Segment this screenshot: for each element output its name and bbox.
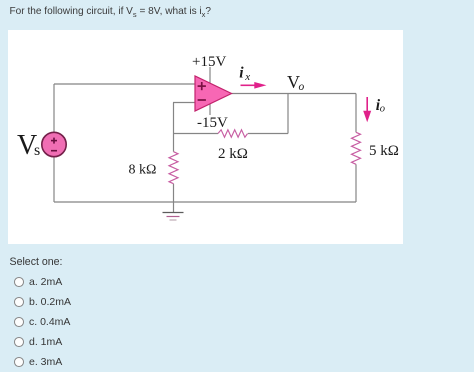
- wire 8k to ground rail: [173, 184, 175, 202]
- svg-text:5 kΩ: 5 kΩ: [369, 143, 399, 159]
- wire ground stub: [173, 202, 175, 213]
- svg-text:i: i: [239, 65, 244, 82]
- op-amp U1: [195, 76, 232, 111]
- wire left rail upper: [53, 84, 55, 132]
- wire +15V supply stub: [209, 67, 211, 83]
- wire node A vertical (inverting input to 8k): [173, 103, 175, 152]
- source Vs circle: [42, 132, 66, 156]
- op-amp minus input sign: [198, 99, 206, 101]
- resistor R1 8 kOhm: [169, 152, 178, 184]
- resistor R2 2 kOhm: [218, 130, 248, 137]
- wire Vo node vertical: [287, 94, 289, 134]
- svg-text:+15V: +15V: [192, 54, 226, 70]
- wire right rail lower: [355, 164, 357, 202]
- wire bottom rail: [54, 201, 356, 203]
- wire -15V supply stub: [209, 104, 211, 115]
- svg-text:8 kΩ: 8 kΩ: [129, 163, 157, 178]
- svg-text:x: x: [244, 71, 250, 83]
- source minus sign: [51, 150, 57, 152]
- wire op-amp minus input: [173, 102, 195, 104]
- wire left rail lower: [53, 157, 55, 202]
- wire op-amp output: [232, 93, 357, 95]
- source plus sign: [51, 138, 57, 144]
- resistor R3 5 kOhm: [352, 132, 361, 164]
- svg-text:s: s: [34, 142, 40, 159]
- current arrow ix: [241, 82, 267, 89]
- wire feedback right segment: [248, 133, 288, 135]
- wire right rail upper: [355, 94, 357, 133]
- svg-text:o: o: [299, 81, 305, 93]
- wire top rail to op-amp + input: [54, 83, 195, 85]
- svg-text:-15V: -15V: [197, 115, 228, 131]
- current arrow io: [363, 97, 371, 122]
- ground: [163, 213, 184, 221]
- svg-text:o: o: [380, 104, 385, 115]
- svg-text:2 kΩ: 2 kΩ: [218, 146, 248, 162]
- wire feedback left segment: [174, 133, 219, 135]
- op-amp plus input sign: [198, 82, 206, 90]
